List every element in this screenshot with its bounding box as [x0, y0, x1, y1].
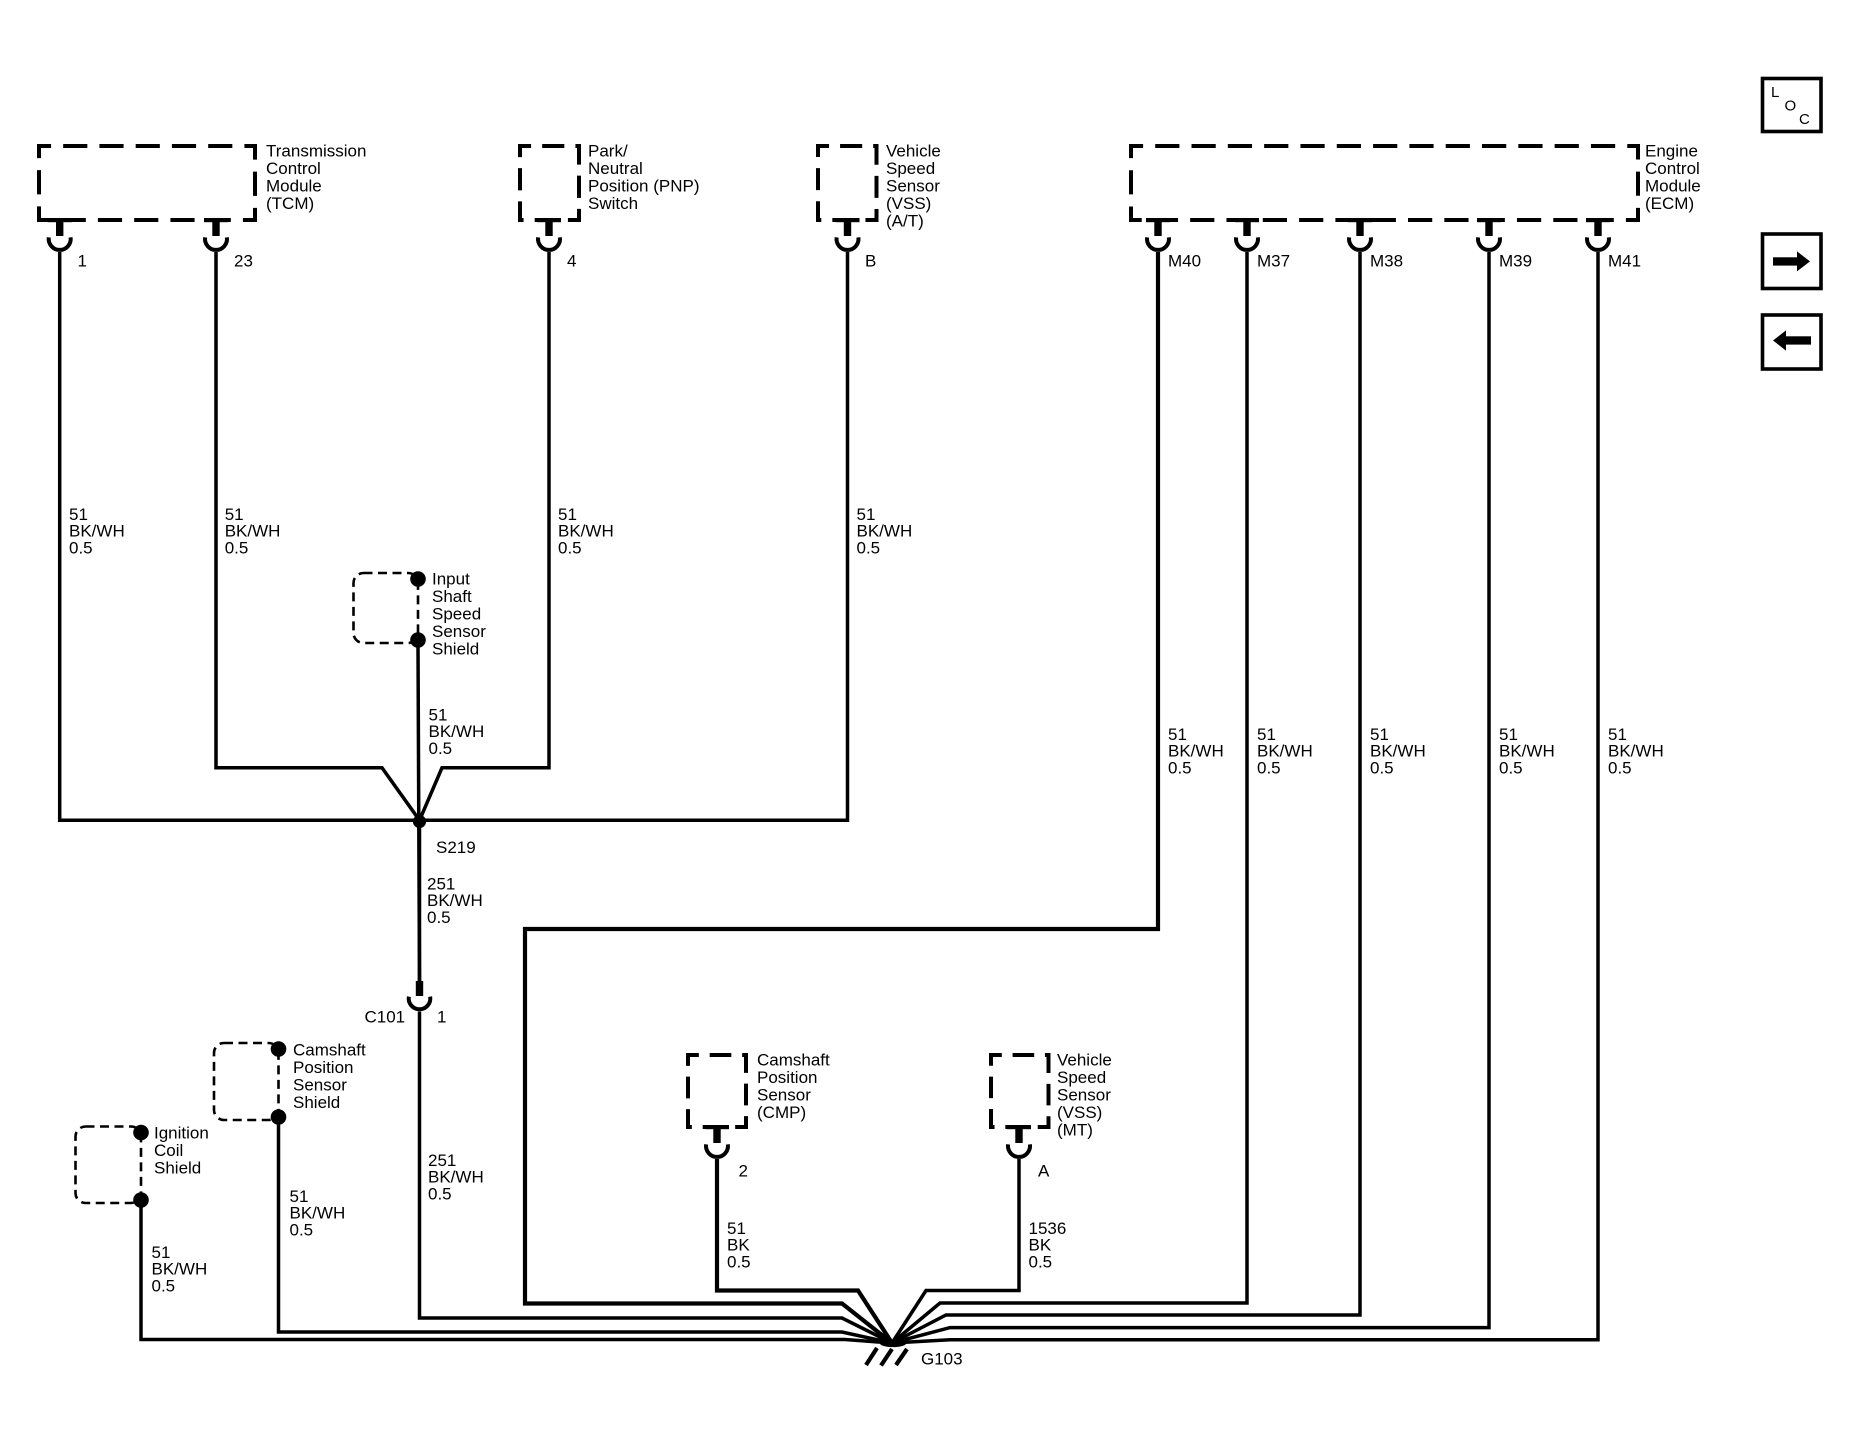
svg-text:Shield: Shield — [293, 1093, 340, 1112]
left arrow nav box — [1763, 315, 1822, 369]
svg-text:2: 2 — [739, 1161, 748, 1180]
svg-text:Camshaft: Camshaft — [757, 1050, 830, 1069]
svg-text:Camshaft: Camshaft — [293, 1040, 366, 1059]
svg-text:1: 1 — [78, 251, 87, 270]
svg-text:Neutral: Neutral — [588, 159, 643, 178]
wire 51 BK from CMP pin 2 to G103 — [717, 1159, 892, 1343]
svg-text:Ignition: Ignition — [154, 1123, 209, 1142]
svg-text:0.5: 0.5 — [152, 1277, 176, 1296]
svg-text:(CMP): (CMP) — [757, 1103, 806, 1122]
wire 51 BK/WH: TCM pin1 down, across to VSS A/T pin B — [60, 252, 848, 820]
module TCM (Transmission Control Module) box — [39, 146, 255, 220]
svg-text:B: B — [865, 251, 876, 270]
svg-text:C: C — [1799, 111, 1810, 128]
sensor CMP box — [688, 1055, 746, 1127]
ECM pin M41 — [1586, 218, 1641, 270]
svg-text:Input: Input — [432, 569, 470, 588]
svg-text:Speed: Speed — [1057, 1068, 1106, 1087]
wire 51 BK/WH from ECM M39 to G103 — [892, 252, 1489, 1343]
svg-text:(MT): (MT) — [1057, 1120, 1093, 1139]
svg-text:4: 4 — [567, 251, 576, 270]
sensor VSS MT box — [991, 1055, 1049, 1127]
svg-text:A: A — [1038, 1161, 1050, 1180]
wire 51 BK/WH from camshaft shield to G103 — [279, 1123, 893, 1343]
ECM pin M37 — [1235, 218, 1290, 270]
module ECM (Engine Control Module) box — [1131, 146, 1638, 220]
svg-text:0.5: 0.5 — [1608, 759, 1632, 778]
svg-text:L: L — [1771, 84, 1779, 101]
svg-text:(A/T): (A/T) — [886, 211, 924, 230]
svg-text:Position (PNP): Position (PNP) — [588, 176, 699, 195]
svg-text:Switch: Switch — [588, 194, 638, 213]
svg-text:0.5: 0.5 — [1499, 759, 1523, 778]
svg-text:0.5: 0.5 — [1168, 759, 1192, 778]
svg-text:G103: G103 — [921, 1349, 963, 1368]
TCM pin 23 — [204, 218, 253, 270]
svg-text:M37: M37 — [1257, 251, 1290, 270]
wire 251 BK/WH from C101 to G103 — [420, 1012, 893, 1344]
svg-text:Sensor: Sensor — [293, 1075, 347, 1094]
VSS A/T pin B — [836, 218, 877, 270]
svg-text:Shield: Shield — [432, 639, 479, 658]
shield: Camshaft Position Sensor Shield — [214, 1041, 286, 1125]
svg-text:Module: Module — [1645, 176, 1701, 195]
svg-text:0.5: 0.5 — [69, 539, 93, 558]
svg-text:0.5: 0.5 — [1370, 759, 1394, 778]
wire 51 BK/WH from ECM M40 to G103 — [525, 252, 1158, 1343]
ground G103 — [866, 1340, 907, 1366]
svg-text:0.5: 0.5 — [558, 539, 582, 558]
svg-text:Position: Position — [757, 1068, 817, 1087]
svg-text:1: 1 — [437, 1007, 446, 1026]
svg-text:(ECM): (ECM) — [1645, 194, 1694, 213]
svg-text:23: 23 — [234, 251, 253, 270]
svg-text:Shield: Shield — [154, 1158, 201, 1177]
wire 51 BK/WH from PNP pin 4 to splice S219 — [420, 252, 550, 820]
PNP pin 4 — [537, 218, 576, 270]
svg-text:Park/: Park/ — [588, 141, 628, 160]
svg-text:M39: M39 — [1499, 251, 1532, 270]
svg-text:M38: M38 — [1370, 251, 1403, 270]
svg-text:0.5: 0.5 — [857, 539, 881, 558]
wire 51 BK/WH from ECM M37 to G103 — [892, 252, 1247, 1343]
CMP pin 2 — [705, 1125, 748, 1180]
svg-text:0.5: 0.5 — [1029, 1253, 1053, 1272]
TCM pin 1 — [48, 218, 87, 270]
svg-text:0.5: 0.5 — [225, 539, 249, 558]
wire from shield to splice S219 / C101 — [418, 646, 420, 981]
svg-text:Control: Control — [266, 159, 321, 178]
splice S219 junction dot — [413, 815, 426, 828]
wire 51 BK/WH from ECM M41 to G103 — [892, 252, 1598, 1343]
svg-text:Position: Position — [293, 1058, 353, 1077]
wire 1536 BK from VSS MT pin A to G103 — [892, 1159, 1019, 1343]
svg-text:Coil: Coil — [154, 1141, 183, 1160]
svg-text:S219: S219 — [436, 838, 476, 857]
module PNP switch box — [520, 146, 579, 220]
right arrow nav box — [1763, 234, 1822, 289]
svg-text:Speed: Speed — [886, 159, 935, 178]
shield: Input Shaft Speed Sensor Shield — [354, 571, 426, 648]
wire 251 BK/WH from S219 to C101 — [418, 820, 422, 981]
svg-text:Control: Control — [1645, 159, 1700, 178]
svg-text:Shaft: Shaft — [432, 587, 472, 606]
svg-text:(VSS): (VSS) — [1057, 1103, 1102, 1122]
svg-text:Sensor: Sensor — [1057, 1085, 1111, 1104]
connector C101 — [409, 981, 431, 1009]
svg-text:M41: M41 — [1608, 251, 1641, 270]
svg-text:M40: M40 — [1168, 251, 1201, 270]
svg-text:O: O — [1785, 98, 1797, 115]
ECM pin M40 — [1146, 218, 1201, 270]
svg-text:Transmission: Transmission — [266, 141, 366, 160]
svg-text:(TCM): (TCM) — [266, 194, 314, 213]
svg-text:Speed: Speed — [432, 604, 481, 623]
svg-text:0.5: 0.5 — [427, 908, 451, 927]
shield: Ignition Coil Shield — [76, 1125, 149, 1208]
svg-text:Vehicle: Vehicle — [1057, 1050, 1112, 1069]
svg-text:0.5: 0.5 — [429, 739, 453, 758]
svg-text:Vehicle: Vehicle — [886, 141, 941, 160]
svg-text:0.5: 0.5 — [1257, 759, 1281, 778]
svg-text:Sensor: Sensor — [886, 176, 940, 195]
svg-text:0.5: 0.5 — [290, 1221, 314, 1240]
LOC reference box — [1763, 79, 1822, 132]
sensor VSS A/T box — [818, 146, 877, 220]
VSS MT pin A — [1007, 1125, 1050, 1180]
svg-text:(VSS): (VSS) — [886, 194, 931, 213]
svg-text:0.5: 0.5 — [727, 1253, 751, 1272]
svg-text:Engine: Engine — [1645, 141, 1698, 160]
ECM pin M39 — [1477, 218, 1532, 270]
svg-text:Sensor: Sensor — [757, 1085, 811, 1104]
wire 51 BK/WH from TCM pin 23 to splice S219 — [216, 252, 420, 820]
svg-text:Module: Module — [266, 176, 322, 195]
svg-text:0.5: 0.5 — [428, 1185, 452, 1204]
ECM pin M38 — [1348, 218, 1403, 270]
wire 51 BK/WH from ignition coil shield to G103 — [141, 1206, 892, 1343]
svg-text:Sensor: Sensor — [432, 622, 486, 641]
svg-text:C101: C101 — [365, 1007, 406, 1026]
wire 51 BK/WH from ECM M38 to G103 — [892, 252, 1360, 1343]
